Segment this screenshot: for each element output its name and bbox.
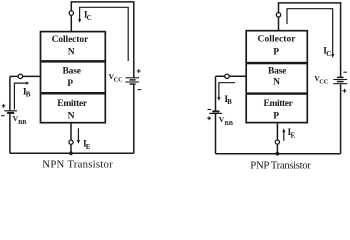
svg-text:P: P <box>273 48 279 58</box>
svg-text:Base: Base <box>62 67 81 77</box>
svg-text:Emitter: Emitter <box>57 99 88 109</box>
svg-text:P: P <box>67 79 73 89</box>
svg-text:BB: BB <box>225 120 234 127</box>
svg-text:CC: CC <box>114 77 124 84</box>
svg-text:Collector: Collector <box>52 35 89 45</box>
svg-text:B: B <box>26 90 31 98</box>
svg-text:E: E <box>86 143 91 151</box>
svg-text:B: B <box>227 98 232 106</box>
svg-text:E: E <box>291 131 296 139</box>
svg-text:N: N <box>68 47 75 57</box>
svg-text:C: C <box>87 14 92 22</box>
svg-text:P: P <box>273 111 279 121</box>
svg-text:C: C <box>326 50 331 58</box>
svg-text:Base: Base <box>268 66 286 76</box>
svg-text:N: N <box>273 78 280 88</box>
svg-text:Emitter: Emitter <box>264 99 294 109</box>
svg-text:BB: BB <box>18 119 27 126</box>
svg-text:CC: CC <box>319 78 329 85</box>
svg-text:Collector: Collector <box>258 34 297 44</box>
svg-text:N: N <box>68 112 75 122</box>
svg-text:NPN Transistor: NPN Transistor <box>42 159 113 170</box>
svg-text:PNP Transistor: PNP Transistor <box>250 159 311 170</box>
